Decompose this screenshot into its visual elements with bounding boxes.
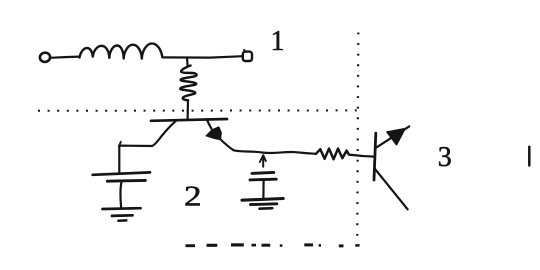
svg-text:3: 3 xyxy=(438,142,452,173)
svg-text:1: 1 xyxy=(271,26,285,57)
svg-text:2: 2 xyxy=(184,181,202,212)
